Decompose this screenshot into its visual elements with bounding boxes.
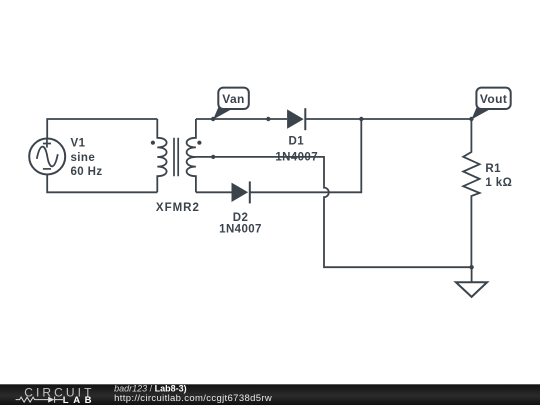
junction dot Vout node: [469, 117, 473, 121]
footer text: [114, 383, 272, 404]
svg-text:D1: D1: [289, 135, 305, 147]
diode D2: [232, 181, 250, 203]
resistor R1: [463, 119, 479, 267]
V1 value labels: [71, 138, 103, 179]
junction dot at ground rail: [469, 265, 473, 269]
wire center tap to ground rail (with hop): [196, 157, 472, 267]
svg-text:60 Hz: 60 Hz: [71, 166, 103, 178]
transformer XFMR2: [151, 119, 202, 192]
svg-text:sine: sine: [71, 152, 96, 164]
node Vout flag: [471, 88, 510, 120]
svg-text:badr123 / Lab8-3): badr123 / Lab8-3): [114, 383, 187, 393]
voltage source V1: [29, 139, 65, 175]
svg-text:LAB: LAB: [63, 395, 96, 405]
svg-text:V1: V1: [71, 138, 86, 150]
junction dot D1/D2 outputs: [359, 117, 363, 121]
D2 labels: [219, 212, 262, 236]
svg-text:1N4007: 1N4007: [219, 224, 262, 236]
wire D1 cathode to Vout node: [305, 118, 471, 120]
svg-text:D2: D2: [233, 212, 249, 224]
D1 labels: [275, 135, 318, 163]
svg-text:http://circuitlab.com/ccgjt673: http://circuitlab.com/ccgjt6738d5rw: [114, 393, 272, 404]
svg-text:Van: Van: [222, 92, 245, 106]
wire V1 top to transformer primary: [47, 119, 157, 139]
svg-text:R1: R1: [485, 163, 501, 175]
wire V1 bottom to transformer primary: [47, 175, 157, 193]
svg-text:1 kΩ: 1 kΩ: [485, 177, 512, 189]
node Van flag: [213, 88, 249, 120]
svg-text:Vout: Vout: [480, 92, 507, 106]
R1 labels: [485, 163, 512, 189]
CircuitLab logo: [16, 385, 97, 405]
diode D1: [287, 108, 305, 130]
svg-text:XFMR2: XFMR2: [156, 202, 200, 214]
junction dot on top wire: [266, 117, 270, 121]
footer bar: [0, 383, 540, 405]
junction dot Van node: [211, 117, 215, 121]
wire secondary bottom to D2 anode: [196, 191, 232, 193]
wire secondary top to D1 anode: [196, 118, 287, 120]
ground: [456, 267, 487, 297]
junction dot on center tap wire: [211, 155, 215, 159]
wire D2 cathode up to top wire: [250, 119, 361, 192]
